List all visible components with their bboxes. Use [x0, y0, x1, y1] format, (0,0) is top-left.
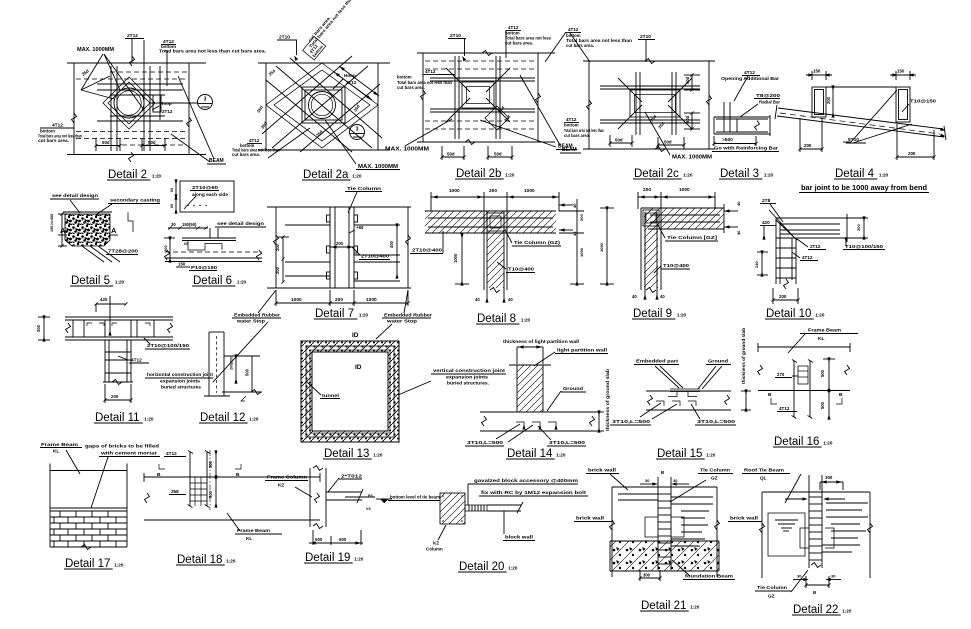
- detail 22 bottom dims 30 30 B: [793, 563, 841, 596]
- svg-text:400: 400: [389, 240, 394, 248]
- svg-text:T8@200: T8@200: [756, 93, 781, 98]
- svg-text:Roof Tie Beam: Roof Tie Beam: [744, 468, 784, 473]
- detail 2c top left 4T12 note: [545, 27, 632, 62]
- detail 6 left dim 60 60: [170, 180, 177, 213]
- svg-text:3: 3: [204, 97, 207, 103]
- detail 14 leaders to labels: [496, 424, 551, 442]
- svg-text:1:20: 1:20: [115, 280, 125, 285]
- detail 8 slab band hatched: [425, 211, 556, 233]
- svg-text:4T12: 4T12: [566, 117, 577, 122]
- detail 12 title: [199, 412, 259, 424]
- svg-text:4T12: 4T12: [779, 406, 790, 411]
- svg-text:40: 40: [736, 230, 741, 235]
- detail 9 title: [632, 308, 687, 320]
- detail 2a crossing diagonals: [262, 56, 382, 152]
- detail 2c horizontal bars: [600, 86, 700, 123]
- detail 2c bottom left 4T12 BEAM note: [560, 117, 604, 153]
- detail 2a MAX 1000MM note: [325, 120, 400, 170]
- detail 19 level mark: [376, 499, 392, 503]
- detail 5 rotated dim 150 h450: [50, 212, 67, 247]
- svg-text:Detail 3: Detail 3: [720, 168, 759, 180]
- detail 13 title: [323, 448, 383, 460]
- detail 5 see detail design label: [50, 193, 99, 213]
- detail 10 beam bars: [780, 224, 840, 234]
- svg-text:Embedded part: Embedded part: [636, 359, 679, 364]
- detail 18 beam band: [144, 473, 320, 520]
- detail 2 diamond around opening: [103, 77, 155, 129]
- detail 14 joint line: [509, 364, 551, 366]
- detail 14 wall hatched: [517, 365, 543, 412]
- svg-text:MAX. 1000MM: MAX. 1000MM: [672, 155, 712, 161]
- detail 4 sloping slab: [775, 105, 946, 140]
- svg-text:bottom: bottom: [564, 123, 579, 128]
- detail 20 comb accessory: [465, 505, 487, 511]
- detail 15 labels 3T10 L500: [610, 419, 736, 425]
- detail 20 fix note: [479, 490, 588, 496]
- detail 8 column hatched: [484, 211, 507, 290]
- detail 22 tie column ladder: [809, 475, 822, 568]
- detail 2c rotated 35d dims: [649, 114, 666, 130]
- detail 17 gaps of bricks note: [85, 444, 160, 509]
- detail 15 rotated thickness label: [741, 328, 746, 384]
- svg-text:Detail 20: Detail 20: [459, 561, 504, 573]
- svg-text:B: B: [839, 392, 843, 398]
- svg-text:vertical construction joint: vertical construction joint: [433, 368, 506, 373]
- svg-text:300: 300: [825, 475, 833, 480]
- detail 10 label 420: [760, 220, 776, 239]
- svg-text:Detail 14: Detail 14: [507, 448, 553, 460]
- detail 2a leader 2T10: [277, 35, 297, 61]
- detail 16 label 4T12: [777, 406, 797, 412]
- detail 21 bottom dim 300: [638, 570, 661, 581]
- detail 8 left dim 1000: [453, 234, 469, 285]
- svg-text:50d: 50d: [148, 140, 156, 145]
- svg-text:GZ: GZ: [711, 476, 718, 481]
- svg-text:2T10@100/150: 2T10@100/150: [147, 343, 190, 348]
- detail 7 outer walls: [267, 207, 411, 288]
- detail 6 note text 2T10@60: [184, 185, 229, 209]
- svg-text:1:20: 1:20: [114, 563, 124, 568]
- svg-text:KL: KL: [53, 449, 59, 454]
- svg-text:30: 30: [673, 478, 678, 483]
- svg-text:1:20: 1:20: [354, 557, 364, 562]
- svg-text:KL: KL: [818, 336, 824, 342]
- svg-text:B: B: [157, 472, 161, 478]
- detail 6 note box: [180, 181, 234, 212]
- svg-text:150 h=450: 150 h=450: [50, 214, 54, 232]
- detail 2c outer box: [583, 61, 715, 149]
- svg-text:200: 200: [908, 151, 916, 156]
- svg-text:see detail design: see detail design: [217, 221, 264, 227]
- svg-text:2T12: 2T12: [810, 244, 821, 249]
- svg-text:cut bars area.: cut bars area.: [564, 133, 590, 138]
- svg-text:cut bars area.: cut bars area.: [232, 152, 260, 157]
- svg-text:1:20: 1:20: [815, 313, 825, 318]
- detail 2c corner diagonals: [618, 78, 692, 129]
- svg-text:150: 150: [178, 262, 186, 267]
- svg-text:1:20: 1:20: [352, 174, 362, 179]
- detail 8 2T10@400 left label: [410, 231, 443, 254]
- svg-text:1:20: 1:20: [521, 318, 531, 323]
- detail 14 wall width dim: [517, 346, 543, 364]
- detail 7 label 2T10@400: [352, 247, 390, 260]
- detail 2 opening circle: [114, 88, 144, 118]
- detail 5 secondary casting label: [97, 198, 160, 215]
- svg-text:expansion joints: expansion joints: [160, 379, 200, 384]
- svg-text:3T10,L=500: 3T10,L=500: [612, 419, 651, 424]
- detail 13 tunnel label: [306, 381, 340, 399]
- detail 22 tie column GZ label: [755, 570, 808, 599]
- svg-text:1:20: 1:20: [556, 453, 566, 458]
- svg-text:1000: 1000: [599, 242, 604, 252]
- detail 20 wall lines: [487, 502, 523, 513]
- detail 14 right dim: [594, 411, 604, 432]
- detail 11 label 4T12: [118, 356, 149, 363]
- svg-text:1:20: 1:20: [152, 174, 162, 179]
- svg-text:1000: 1000: [449, 188, 460, 194]
- svg-text:420: 420: [100, 297, 108, 302]
- svg-text:4T12: 4T12: [131, 358, 142, 363]
- svg-text:Detail 13: Detail 13: [324, 448, 369, 460]
- detail 2b opening rects: [462, 82, 494, 108]
- detail 4 parapet stub left: [812, 87, 826, 117]
- detail 3 opening additional bar label: [721, 70, 779, 101]
- detail 2 hoop label: [152, 101, 173, 114]
- svg-text:200: 200: [275, 243, 280, 251]
- svg-text:KZ: KZ: [278, 483, 284, 488]
- detail 12 embedded rubber label: [232, 313, 281, 324]
- detail 12 waterstop diagonal: [213, 322, 268, 382]
- detail 15 ground label: [706, 359, 731, 365]
- svg-text:500: 500: [245, 368, 250, 376]
- svg-text:1:20: 1:20: [237, 280, 247, 285]
- detail 2 dim 50d right: [140, 138, 166, 151]
- detail 8 title: [476, 313, 531, 325]
- detail 21 tie column ladder: [658, 477, 671, 570]
- detail 14 ground label: [547, 386, 586, 411]
- svg-text:Radial Bar: Radial Bar: [759, 100, 780, 105]
- detail 9 bottom dims 40 40: [632, 288, 665, 300]
- svg-text:B: B: [813, 590, 816, 595]
- svg-text:1000: 1000: [579, 247, 584, 257]
- svg-text:T10@100/150: T10@100/150: [845, 244, 884, 249]
- detail 17 title: [64, 558, 124, 570]
- svg-text:P3: P3: [368, 494, 373, 498]
- detail 10 beam outline: [776, 214, 847, 242]
- detail 20 title: [458, 561, 518, 573]
- svg-text:Column: Column: [426, 547, 443, 552]
- svg-text:1:20: 1:20: [677, 313, 687, 318]
- svg-text:1:20: 1:20: [706, 453, 716, 458]
- detail 8 tie column section in slab: [487, 213, 504, 231]
- detail 2c vertical bars: [636, 72, 676, 135]
- detail 21 bed joint lines: [618, 494, 713, 546]
- detail 8 T10@400 label: [497, 262, 535, 273]
- detail 17 brick courses: [50, 511, 127, 550]
- detail 17 box outline: [50, 464, 127, 548]
- detail 21 title: [640, 600, 700, 612]
- svg-text:200: 200: [336, 241, 344, 246]
- detail 2b rotated 35d dims: [497, 105, 512, 123]
- svg-text:BEAM: BEAM: [562, 147, 577, 153]
- svg-text:Detail 9: Detail 9: [633, 308, 672, 320]
- detail 9 top dims 200 1000: [638, 187, 715, 209]
- detail 15 embedded plate: [668, 389, 700, 397]
- svg-text:cut bars area.: cut bars area.: [397, 85, 425, 90]
- detail 10 label 2T8: [760, 198, 783, 222]
- svg-text:40: 40: [632, 294, 637, 299]
- svg-text:Detail 18: Detail 18: [177, 554, 222, 566]
- detail 6 slab lines: [165, 250, 263, 262]
- detail 16 ladder verticals: [792, 360, 814, 419]
- svg-text:Frame Beam: Frame Beam: [237, 528, 270, 533]
- detail 14 title: [506, 448, 566, 460]
- svg-text:30: 30: [831, 574, 836, 579]
- svg-text:Detail 15: Detail 15: [657, 448, 702, 460]
- svg-text:60: 60: [170, 188, 174, 192]
- detail 10 label T10@100/150: [843, 238, 885, 250]
- detail 11 slab cell verticals: [73, 320, 154, 337]
- svg-text:Detail 2c: Detail 2c: [634, 168, 679, 180]
- detail 3 radial bar label: [740, 93, 781, 117]
- svg-text:Detail 7: Detail 7: [315, 308, 354, 320]
- svg-text:Detail 12: Detail 12: [200, 412, 245, 424]
- detail 5 leaders to 7T28: [82, 246, 120, 262]
- detail 12 right bracket dims: [222, 355, 262, 401]
- detail 21 tie column GZ label: [670, 468, 733, 503]
- detail 7 left dims 200 200: [275, 235, 289, 283]
- svg-text:200: 200: [335, 297, 343, 303]
- detail 15 leaders: [655, 366, 722, 389]
- svg-text:1:20: 1:20: [505, 173, 515, 178]
- detail 11 label 2T10@100/150: [144, 338, 190, 349]
- svg-text:Tie Column: Tie Column: [757, 585, 787, 590]
- detail 18 frame beam KL label: [227, 513, 282, 541]
- detail 8 tie column GZ label: [505, 230, 561, 246]
- svg-text:+60: +60: [356, 225, 364, 230]
- svg-text:150: 150: [813, 69, 821, 74]
- svg-text:7T28@200: 7T28@200: [108, 249, 138, 255]
- detail 2b horizontal bars: [430, 78, 535, 112]
- svg-text:MAX. 1000MM: MAX. 1000MM: [77, 47, 115, 53]
- svg-text:brick wall: brick wall: [576, 516, 604, 521]
- svg-text:T10@150: T10@150: [910, 99, 937, 104]
- svg-text:Detail 5: Detail 5: [71, 275, 110, 287]
- detail 4 top connecting line: [826, 86, 896, 88]
- detail 2c leader 2T10: [638, 34, 655, 62]
- svg-text:Go with Reinforcing Bar: Go with Reinforcing Bar: [714, 146, 778, 151]
- svg-text:Tie Column (GZ): Tie Column (GZ): [514, 240, 561, 245]
- svg-text:Detail 11: Detail 11: [95, 412, 140, 424]
- svg-text:thickness of light partition w: thickness of light partition wall: [503, 339, 579, 344]
- svg-text:200: 200: [579, 214, 584, 221]
- svg-text:Detail 6: Detail 6: [193, 275, 232, 287]
- detail 7 right dim 400: [389, 224, 398, 278]
- detail 18 ladder verticals: [188, 451, 211, 508]
- svg-text:4T12: 4T12: [166, 451, 177, 456]
- svg-text:Frame Beam: Frame Beam: [41, 442, 78, 447]
- detail 12 wall: [204, 332, 230, 396]
- svg-text:40: 40: [508, 297, 513, 302]
- detail 19 bottom dims 500 500: [309, 530, 363, 545]
- detail 7 embedded rubber right label: [382, 290, 432, 324]
- detail 2c right 50d dims: [684, 73, 700, 130]
- svg-text:420: 420: [762, 220, 770, 225]
- svg-text:V3: V3: [366, 507, 371, 511]
- svg-text:270: 270: [777, 372, 785, 377]
- svg-text:3: 3: [356, 127, 359, 133]
- detail 4 dim 200 vertical: [826, 86, 834, 117]
- svg-text:buried structures: buried structures: [161, 385, 201, 390]
- detail 14 hook bars in slab: [516, 422, 557, 429]
- detail 8 bottom dims 40 40: [475, 288, 513, 303]
- detail 15 leaders to labels: [640, 403, 700, 419]
- detail 21 side notches: [645, 517, 684, 537]
- detail 18 centerline: [209, 450, 211, 510]
- svg-text:240: 240: [754, 261, 759, 268]
- detail 21 foundation hatched: [610, 541, 719, 571]
- svg-text:see detail design: see detail design: [52, 193, 98, 199]
- svg-text:200(200): 200(200): [230, 355, 234, 370]
- detail 22 top arrows: [785, 498, 845, 500]
- detail 19 title: [304, 552, 364, 564]
- detail 2a diamond: [266, 63, 378, 148]
- svg-text:Detail 2: Detail 2: [108, 169, 147, 181]
- svg-text:thickness of ground slab: thickness of ground slab: [605, 369, 610, 431]
- svg-text:fix with RC by 1M12 expansion: fix with RC by 1M12 expansion bolt: [481, 490, 587, 495]
- svg-text:bottom level of tie beam: bottom level of tie beam: [390, 495, 440, 500]
- detail 18 label 258: [169, 489, 186, 495]
- detail 2a tie column label for detail 7: [345, 186, 382, 213]
- detail 16 right dim 500 500: [820, 358, 835, 419]
- svg-text:50d: 50d: [102, 140, 110, 145]
- detail 2 dim 50d left: [94, 138, 121, 151]
- svg-text:200: 200: [826, 96, 831, 104]
- detail 16 beam band: [758, 343, 851, 391]
- svg-text:Ground: Ground: [563, 386, 583, 392]
- detail 20 KZ column label: [426, 525, 446, 552]
- detail 22 left water box: [768, 513, 805, 556]
- svg-text:buried structures.: buried structures.: [447, 381, 489, 386]
- svg-text:1:20: 1:20: [823, 441, 833, 446]
- detail 9 T10@400 label: [654, 263, 690, 273]
- detail 17 beam soffit lines: [50, 508, 127, 511]
- svg-text:tunnel: tunnel: [322, 393, 339, 398]
- svg-text:KL: KL: [246, 536, 252, 541]
- svg-text:200: 200: [804, 143, 812, 148]
- detail 16 label 270: [775, 372, 798, 378]
- svg-text:foundation Beam: foundation Beam: [685, 574, 733, 579]
- detail 11 title: [94, 412, 154, 424]
- detail 10 label 2T12: [797, 239, 826, 250]
- detail 22 title: [792, 604, 852, 616]
- svg-text:cut bars area.: cut bars area.: [38, 138, 69, 143]
- detail 2a left 4T12 note: [232, 128, 310, 158]
- detail 15 right dim: [741, 390, 751, 411]
- detail 2a title: [302, 169, 362, 181]
- detail 21 brick wall mid label: [574, 516, 612, 522]
- detail 2 hoop small box: [153, 95, 161, 112]
- detail 2 beam bars horizontal: [97, 84, 183, 121]
- svg-text:4T12: 4T12: [425, 69, 436, 74]
- detail 21 wall outline: [610, 487, 720, 577]
- detail 16 title: [773, 436, 833, 448]
- detail 2 bottom break: [72, 113, 192, 162]
- svg-text:Tie Column: Tie Column: [700, 468, 730, 473]
- detail 11 hook bars: [87, 323, 150, 326]
- svg-text:bottom: bottom: [397, 75, 412, 80]
- detail 15 hook bars: [656, 401, 696, 406]
- svg-text:gaps of bricks to be filled: gaps of bricks to be filled: [85, 444, 159, 449]
- detail 2a hoop label: [333, 73, 357, 89]
- detail 7 right tie column with notches: [349, 207, 358, 288]
- svg-text:P10@150: P10@150: [191, 265, 218, 270]
- detail 5 step mark: [128, 212, 133, 232]
- svg-text:thickness of ground slab: thickness of ground slab: [741, 328, 746, 384]
- detail 11 slab band: [65, 317, 173, 340]
- detail 2b outer box: [417, 53, 555, 142]
- detail 7 bottom dims 1000 200 1000: [274, 290, 409, 306]
- svg-text:1000: 1000: [366, 297, 377, 303]
- detail 9 slab band hatched: [641, 208, 724, 229]
- svg-text:GZ: GZ: [768, 594, 775, 599]
- svg-text:50d: 50d: [615, 138, 623, 143]
- detail 10 column rungs: [776, 248, 796, 289]
- svg-text:50d: 50d: [685, 115, 690, 123]
- detail 8 top dims 1000 200 1000: [431, 188, 559, 211]
- detail 19 bottom level note: [388, 495, 440, 501]
- detail 5 title: [70, 275, 125, 287]
- detail 5 label 7T28@200: [106, 249, 138, 255]
- svg-text:2*T012: 2*T012: [341, 474, 363, 479]
- svg-text:>500: >500: [722, 137, 733, 143]
- detail 20 KZ column hatched square: [440, 493, 465, 524]
- detail 4 dim 150 right: [890, 69, 916, 81]
- detail 14 labels 3T10 L500: [465, 440, 586, 446]
- detail 20 gavalzed note: [468, 478, 578, 505]
- detail 6 stepped joint: [182, 238, 236, 250]
- svg-text:4T12: 4T12: [568, 27, 579, 32]
- detail 15 title: [656, 448, 716, 460]
- detail 2a outer square: [258, 63, 390, 150]
- svg-text:T10@400: T10@400: [508, 267, 535, 272]
- detail 2a inner column box: [302, 87, 345, 123]
- svg-text:ID: ID: [352, 332, 359, 339]
- detail 10 label 4T12: [792, 252, 818, 261]
- detail 2 35d wedge: [81, 54, 114, 99]
- detail 7 left tie column with notches: [327, 207, 336, 288]
- detail 2 MAX 1000MM note: [77, 47, 144, 110]
- svg-text:Hoop: Hoop: [160, 101, 172, 106]
- detail 15 ground slab: [646, 391, 731, 410]
- detail 2 dashed slab reinforcement: [76, 72, 187, 145]
- detail 2c bottom dims 50d: [608, 135, 685, 149]
- svg-text:Total bars area not less than: Total bars area not less than cut bars a…: [159, 49, 266, 54]
- detail 3 title: [719, 168, 774, 180]
- svg-text:horizontal construction joint: horizontal construction joint: [147, 372, 213, 377]
- svg-text:brick wall: brick wall: [730, 516, 758, 521]
- svg-text:150(50): 150(50): [182, 222, 197, 227]
- svg-text:500: 500: [208, 460, 213, 468]
- detail 11 beam below: [103, 340, 133, 385]
- detail 2b beam leaders: [480, 75, 577, 150]
- svg-text:60: 60: [170, 204, 174, 208]
- detail 8 right dims 40 200 40 1000: [559, 199, 584, 285]
- detail 17 frame beam KL label: [40, 442, 82, 474]
- detail 9 corner section rects: [643, 210, 659, 226]
- svg-text:200: 200: [779, 294, 787, 299]
- detail 4 T10@150 label: [902, 99, 937, 113]
